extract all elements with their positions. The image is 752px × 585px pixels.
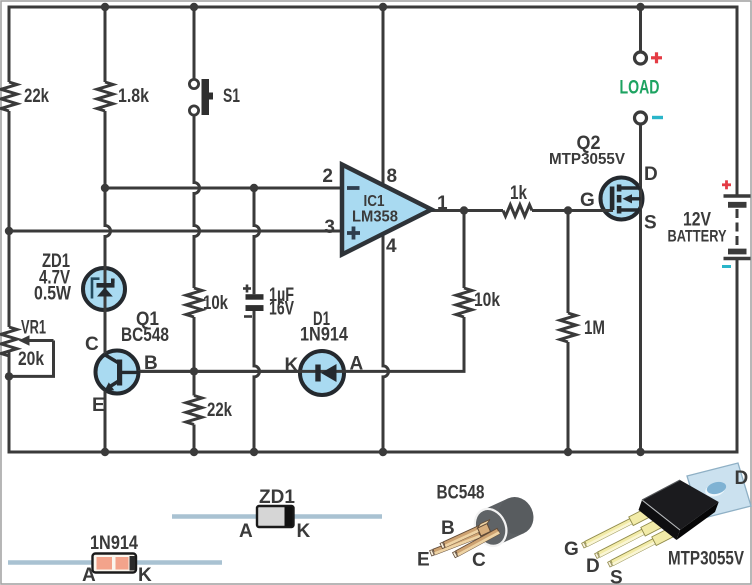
physical MTP3055V G label xyxy=(564,539,579,560)
resistor R 10k right xyxy=(456,288,472,317)
wire 1M to bottom rail xyxy=(567,342,570,452)
junction dot top rail S1 xyxy=(190,3,198,11)
resistor R 1M xyxy=(560,313,576,342)
transistor Q1 base lead xyxy=(122,371,140,374)
physical ZD1 label xyxy=(259,487,295,508)
wire Q1 base to D1 cathode xyxy=(138,370,300,373)
junction dot bottom source xyxy=(636,448,644,456)
wire op-amp pin 2 input xyxy=(105,187,342,190)
svg-text:1: 1 xyxy=(437,193,448,214)
potentiometer VR1 track xyxy=(1,327,17,356)
label BATTERY xyxy=(668,227,727,246)
label LM358 xyxy=(352,209,398,226)
junction dot pin2 cap xyxy=(250,184,258,192)
label Q1 emitter E xyxy=(92,395,105,416)
svg-text:BATTERY: BATTERY xyxy=(668,227,727,246)
svg-text:10k: 10k xyxy=(474,290,500,311)
battery plus sign xyxy=(722,180,731,189)
MOSFET Q2 body circle xyxy=(601,178,643,220)
wire 1.8k to ZD1 with hop over pin3 wire xyxy=(105,111,111,355)
label S1 xyxy=(223,86,240,107)
wire load branch from top rail xyxy=(639,7,642,52)
battery B1 bottom short plate xyxy=(728,249,747,255)
wire bottom rail xyxy=(9,451,737,454)
label pin 2 xyxy=(322,166,333,187)
junction dot top rail 1.8k xyxy=(101,3,109,11)
physical MTP3055V tab D label xyxy=(735,468,749,489)
wire op-amp pin 4 to bottom rail with hop xyxy=(383,234,389,452)
wire S1 branch top xyxy=(193,7,196,80)
junction dot base 10k 22k xyxy=(190,367,198,375)
wire top rail xyxy=(8,6,739,9)
label Q2 gate G xyxy=(580,190,595,211)
junction dot bottom 22k xyxy=(190,448,198,456)
MOSFET Q2 source connector xyxy=(620,208,641,211)
resistor R 22k lower xyxy=(186,396,202,425)
physical MTP3055V body xyxy=(639,480,719,540)
resistor R 1k xyxy=(503,205,532,216)
svg-text:S1: S1 xyxy=(223,86,240,107)
label MTP3055V schematic xyxy=(549,151,625,168)
junction dot gate 1M xyxy=(564,206,572,214)
physical 1N914 label xyxy=(90,533,138,554)
svg-text:K: K xyxy=(138,565,152,585)
battery B1 top short plate xyxy=(728,202,747,208)
physical 1N914 lead wire xyxy=(8,560,222,565)
resistor R 10k left xyxy=(186,288,202,317)
physical BC548 label xyxy=(437,483,485,504)
svg-text:1N914: 1N914 xyxy=(300,325,348,346)
physical ZD1 cathode label K xyxy=(297,521,311,542)
svg-text:S: S xyxy=(610,568,623,585)
MOSFET Q2 gate bar xyxy=(610,187,615,211)
label D1 anode A xyxy=(350,354,364,375)
wire 22k to bottom rail xyxy=(193,425,196,453)
svg-text:IC1: IC1 xyxy=(364,193,385,210)
label 4.7V xyxy=(39,268,70,289)
svg-text:4: 4 xyxy=(386,236,397,257)
svg-text:20k: 20k xyxy=(18,349,44,370)
label Q2 xyxy=(577,133,601,154)
svg-text:3: 3 xyxy=(324,217,335,238)
label 16V xyxy=(269,299,294,320)
junction dot bottom pin4 xyxy=(379,448,387,456)
battery B1 dashed body xyxy=(736,209,739,248)
physical MTP3055V source lead xyxy=(608,528,675,567)
battery B1 top long plate xyxy=(724,194,751,197)
battery B1 bottom long plate xyxy=(724,257,751,260)
wire right rail lower xyxy=(736,260,739,454)
switch S1 actuator bar xyxy=(202,79,214,115)
wire left rail upper xyxy=(8,6,11,83)
svg-text:1N914: 1N914 xyxy=(90,533,138,554)
battery minus sign xyxy=(722,265,731,268)
physical MTP3055V D label xyxy=(586,556,600,577)
label pin 4 xyxy=(386,236,397,257)
wire 1k to Q2 gate xyxy=(532,209,613,212)
load minus terminal xyxy=(635,112,647,124)
svg-text:MTP3055V: MTP3055V xyxy=(668,549,744,570)
junction dot bottom emitter xyxy=(101,448,109,456)
op-amp IC1 triangle xyxy=(342,165,432,255)
svg-text:2: 2 xyxy=(322,166,333,187)
capacitor C 1uF plates xyxy=(246,294,264,311)
physical ZD1 body xyxy=(257,506,294,527)
label pin 3 xyxy=(324,217,335,238)
switch S1 bottom contact xyxy=(189,106,198,115)
zener ZD1 cathode bar xyxy=(97,279,115,288)
wire left rail lower xyxy=(8,352,11,454)
wire load minus to Q2 drain and source to bottom rail xyxy=(639,124,642,452)
wire 1M branch xyxy=(567,211,570,314)
physical BC548 lead base plate xyxy=(478,520,491,537)
svg-text:D: D xyxy=(644,164,658,185)
physical MTP3055V drain lead xyxy=(595,518,664,558)
svg-text:D: D xyxy=(586,556,600,577)
label pin 8 xyxy=(387,166,398,187)
wire 10k right down and left to D1 anode xyxy=(138,317,464,371)
svg-text:C: C xyxy=(472,550,486,571)
physical 1N914 cathode label K xyxy=(138,565,152,585)
transistor Q1 body circle xyxy=(96,351,139,394)
svg-text:A: A xyxy=(82,565,96,585)
svg-text:E: E xyxy=(417,550,430,571)
label 20k xyxy=(18,349,44,370)
label 1uF xyxy=(269,285,294,306)
op-amp inverting input minus sign xyxy=(347,186,360,190)
wire right rail upper xyxy=(736,6,739,195)
svg-text:K: K xyxy=(297,521,311,542)
junction dot top rail pin8 xyxy=(379,3,387,11)
physical 1N914 body xyxy=(93,554,137,573)
potentiometer VR1 wiper arrow xyxy=(19,335,54,345)
wire Q1 emitter to bottom rail xyxy=(104,390,107,453)
label 10k right xyxy=(474,290,500,311)
svg-text:VR1: VR1 xyxy=(21,318,46,339)
capacitor plus polarity mark xyxy=(243,285,251,293)
potentiometer VR1 wiper return wire xyxy=(9,341,54,377)
svg-text:10k: 10k xyxy=(203,293,228,314)
label 1.8k xyxy=(118,86,149,107)
svg-text:B: B xyxy=(441,518,455,539)
wire junction down to 10k right xyxy=(463,211,466,289)
junction dot top rail load xyxy=(636,3,644,11)
physical MTP3055V tab xyxy=(687,463,751,519)
physical ZD1 lead wire xyxy=(172,514,382,519)
svg-text:A: A xyxy=(350,354,364,375)
wire base junction to 22k xyxy=(193,371,196,395)
transistor Q1 base bar xyxy=(117,360,122,386)
capacitor minus polarity mark xyxy=(244,315,252,318)
svg-text:LM358: LM358 xyxy=(352,209,398,226)
label Q1 collector C xyxy=(85,334,99,355)
label VR1 xyxy=(21,318,46,339)
physical 1N914 anode label A xyxy=(82,565,96,585)
load plus terminal xyxy=(635,52,647,64)
label 10k left xyxy=(203,293,228,314)
load minus sign xyxy=(652,116,663,119)
junction dot pin2 1.8k xyxy=(101,184,109,192)
load plus sign xyxy=(651,52,662,63)
svg-text:G: G xyxy=(564,539,579,560)
junction dot bottom cap xyxy=(250,448,258,456)
label LOAD xyxy=(620,78,660,99)
label ZD1 xyxy=(42,251,70,272)
physical BC548 base lead xyxy=(440,523,487,549)
svg-text:S: S xyxy=(644,213,657,234)
MOSFET Q2 drain connector xyxy=(620,186,641,189)
svg-text:D: D xyxy=(735,468,749,489)
MOSFET Q2 body arrow xyxy=(623,194,641,203)
MOSFET Q2 channel segments xyxy=(617,185,622,214)
label 1k xyxy=(510,183,527,204)
label 0.5W xyxy=(34,284,71,305)
label 22k lower xyxy=(207,400,232,421)
svg-text:G: G xyxy=(580,190,595,211)
label Q1 base B xyxy=(144,353,158,374)
svg-text:16V: 16V xyxy=(269,299,294,320)
svg-text:LOAD: LOAD xyxy=(620,78,660,99)
svg-text:BC548: BC548 xyxy=(121,325,169,346)
op-amp non-inverting input plus sign xyxy=(347,227,360,240)
transistor Q1 emitter lead xyxy=(104,381,120,392)
junction dot pin3 left rail xyxy=(5,227,13,235)
resistor R 1.8k xyxy=(97,82,113,111)
junction dot bottom 1M xyxy=(564,448,572,456)
junction dot output 10k xyxy=(460,206,468,214)
wire cap branch with hop xyxy=(254,188,260,294)
wire op-amp pin 3 input xyxy=(9,230,342,233)
svg-text:0.5W: 0.5W xyxy=(34,284,71,305)
diode D1 anode triangle xyxy=(321,364,337,382)
svg-text:22k: 22k xyxy=(207,400,232,421)
switch S1 top contact xyxy=(189,79,198,88)
svg-text:1k: 1k xyxy=(510,183,527,204)
label IC1 xyxy=(364,193,385,210)
wire 10k to base junction xyxy=(193,317,196,371)
wire left rail middle xyxy=(8,111,11,327)
label 22k left xyxy=(24,86,49,107)
svg-text:1M: 1M xyxy=(584,318,605,339)
wire 1.8k branch top xyxy=(104,7,107,82)
physical MTP3055V S label xyxy=(610,568,623,585)
svg-text:1.8k: 1.8k xyxy=(118,86,149,107)
physical ZD1 anode label A xyxy=(239,521,253,542)
label BC548 schematic xyxy=(121,325,169,346)
physical BC548 emitter lead xyxy=(430,532,481,556)
label 12V xyxy=(683,210,711,231)
physical BC548 collector lead xyxy=(453,528,500,557)
wire S1 to 10k with hops xyxy=(194,115,200,288)
zener diode ZD1 body circle xyxy=(83,268,125,310)
label Q1 xyxy=(136,309,159,330)
physical BC548 E label xyxy=(417,550,430,571)
svg-text:A: A xyxy=(239,521,253,542)
svg-text:8: 8 xyxy=(387,166,398,187)
label 1M xyxy=(584,318,605,339)
physical BC548 C label xyxy=(472,550,486,571)
label pin 1 xyxy=(437,193,448,214)
svg-text:E: E xyxy=(92,395,105,416)
physical BC548 B label xyxy=(441,518,455,539)
diode D1 cathode bar xyxy=(315,365,320,382)
wire op-amp pin 8 to top rail xyxy=(382,7,385,185)
label D1 xyxy=(313,309,330,330)
diode D1 body circle xyxy=(300,351,344,395)
svg-text:K: K xyxy=(285,355,299,376)
svg-text:22k: 22k xyxy=(24,86,49,107)
physical MTP3055V label xyxy=(668,549,744,570)
physical MTP3055V gate lead xyxy=(582,508,652,548)
transistor Q1 collector lead xyxy=(105,355,120,364)
zener ZD1 anode triangle xyxy=(97,288,113,297)
label D1 cathode K xyxy=(285,355,299,376)
junction dot VR1 wiper to rail xyxy=(5,372,13,380)
svg-text:MTP3055V: MTP3055V xyxy=(549,151,625,168)
resistor R 22k left xyxy=(1,82,17,111)
wire op-amp output pin 1 xyxy=(431,209,503,212)
wire cap bottom with hop xyxy=(254,311,260,452)
svg-text:BC548: BC548 xyxy=(437,483,485,504)
label 1N914 schematic xyxy=(300,325,348,346)
svg-text:B: B xyxy=(144,353,158,374)
label Q2 source S xyxy=(644,213,657,234)
zener ZD1 bent wing xyxy=(92,279,100,299)
svg-text:C: C xyxy=(85,334,99,355)
label Q2 drain D xyxy=(644,164,658,185)
physical BC548 can body xyxy=(469,491,539,551)
